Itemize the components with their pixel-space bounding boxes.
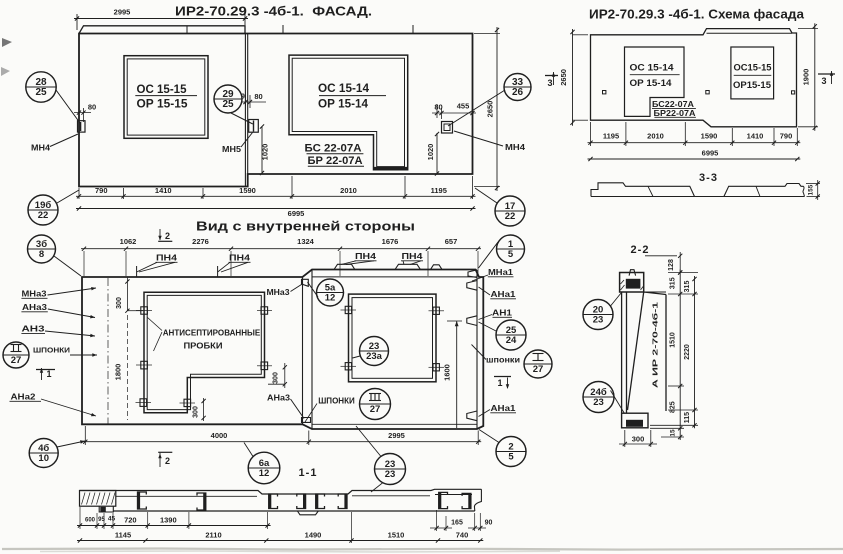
- callout circle 19b/22: [28, 195, 58, 225]
- callout circle 33/26: [504, 74, 531, 101]
- svg-text:ОР 15-14: ОР 15-14: [630, 78, 673, 89]
- svg-text:740: 740: [456, 531, 469, 540]
- svg-text:1: 1: [46, 369, 51, 379]
- svg-text:20: 20: [593, 304, 604, 315]
- svg-text:80: 80: [88, 103, 96, 112]
- section 3-3 bottom line: [591, 196, 805, 198]
- dim 300 bottom of 2-2: [624, 430, 626, 447]
- facade window OC15-15 opening: [124, 56, 208, 139]
- leader PN4 no1: [137, 262, 157, 272]
- section 1-1 dim row1 left: [79, 507, 81, 529]
- inner bottom dims 4000 2995: [84, 426, 86, 445]
- svg-text:2995: 2995: [114, 8, 131, 17]
- svg-text:АНа2: АНа2: [11, 393, 37, 402]
- callout circle 25/24: [496, 320, 526, 350]
- svg-text:МНа3: МНа3: [22, 290, 48, 299]
- svg-text:315: 315: [684, 281, 691, 293]
- svg-text:1195: 1195: [431, 186, 447, 195]
- svg-text:6а: 6а: [259, 458, 270, 469]
- connector plate T1 on top edge: [334, 264, 355, 269]
- svg-text:1590: 1590: [239, 186, 256, 195]
- svg-text:300: 300: [632, 435, 645, 444]
- leader MH5-label to anchor: [241, 133, 253, 148]
- svg-text:1324: 1324: [297, 237, 315, 246]
- svg-text:23: 23: [369, 341, 380, 352]
- callout circle I/27: [524, 350, 552, 378]
- callout circle 2/5: [496, 437, 526, 467]
- channel ch7: [439, 492, 448, 508]
- section 1-1 right end: [474, 489, 481, 511]
- svg-text:1900: 1900: [802, 69, 811, 86]
- section 1-1 outline top: [80, 489, 482, 494]
- svg-text:27: 27: [11, 355, 22, 366]
- right edge connector C: [467, 411, 477, 421]
- svg-text:23: 23: [593, 397, 604, 408]
- plug right window left-low: [345, 363, 351, 370]
- svg-text:ПН4: ПН4: [355, 252, 377, 261]
- section mark 2 top: [158, 240, 172, 242]
- callout circle III/27: [360, 389, 391, 420]
- svg-text:ОС15-15: ОС15-15: [734, 63, 773, 74]
- svg-text:МН4: МН4: [31, 144, 51, 153]
- section mark 3 right: [818, 73, 835, 75]
- svg-text:ПН4: ПН4: [402, 252, 424, 261]
- svg-text:Вид с внутренней стороны: Вид с внутренней стороны: [196, 219, 415, 234]
- svg-text:25: 25: [222, 99, 234, 110]
- svg-text:24: 24: [506, 335, 517, 346]
- svg-text:2650: 2650: [486, 101, 495, 118]
- scheme window OC15-14 opening: [625, 47, 685, 116]
- svg-text:2: 2: [165, 231, 170, 241]
- dim 128 top: [645, 255, 677, 257]
- anchor MH4 left: [78, 121, 86, 132]
- svg-text:28: 28: [35, 77, 47, 88]
- leader shponki left: [70, 354, 97, 356]
- callout circle 3b/8: [28, 235, 56, 263]
- svg-text:5а: 5а: [325, 282, 336, 293]
- callout circle 23/23a: [360, 337, 389, 366]
- anchor AHa3 at bottom step: [302, 418, 311, 423]
- svg-text:455: 455: [457, 102, 470, 111]
- dim 1600 vertical: [447, 320, 462, 322]
- svg-text:2110: 2110: [205, 531, 221, 540]
- section mark 3 left: [545, 75, 558, 77]
- section 1-1 shponka bump: [297, 511, 318, 515]
- connector plate T2 on top edge: [395, 264, 420, 269]
- channel ch2: [197, 493, 206, 510]
- svg-text:ПН4: ПН4: [229, 254, 251, 263]
- dim line 1800 dashed: [126, 315, 128, 420]
- section 1-1 bottom: [113, 510, 475, 512]
- svg-text:1800: 1800: [114, 364, 123, 381]
- svg-text:33: 33: [512, 77, 524, 88]
- section 2-2 bottom block: [622, 413, 648, 428]
- right edge connector top corner: [468, 270, 477, 278]
- section 1-1 inner line left: [116, 495, 257, 497]
- inner joint vertical left: [302, 277, 304, 424]
- svg-text:29: 29: [222, 89, 234, 100]
- section 1-1 dim row1 right 165 90: [436, 510, 438, 531]
- svg-text:БР22-07А: БР22-07А: [654, 108, 696, 118]
- channel ch1: [138, 492, 147, 509]
- svg-text:1510: 1510: [670, 332, 677, 348]
- svg-text:1510: 1510: [388, 531, 405, 540]
- svg-text:825: 825: [670, 401, 677, 413]
- svg-text:600: 600: [85, 518, 96, 524]
- left margin artifact 1: [2, 38, 12, 47]
- svg-text:ОР 15-15: ОР 15-15: [137, 97, 188, 111]
- svg-text:МНа1: МНа1: [488, 268, 514, 277]
- channel ch8: [462, 493, 471, 508]
- plug right window right-low: [433, 364, 439, 371]
- leader PN4 no2: [218, 262, 230, 272]
- svg-text:ПРОБКИ: ПРОБКИ: [184, 342, 223, 351]
- section 3-3 joint slashes: [648, 186, 653, 196]
- inner panel outline: [82, 270, 483, 430]
- section 1-1 inner line far right: [435, 494, 472, 496]
- facade right dim 2650: [474, 33, 500, 35]
- callout circle 28/25: [26, 72, 56, 102]
- leader MH4r-label to anchor: [454, 131, 503, 146]
- channel ch6: [338, 494, 347, 509]
- scheme bottom dims 1195 2010 1590 1410 790: [590, 122, 592, 146]
- leader 4b/10: [57, 441, 85, 447]
- svg-text:128: 128: [668, 259, 675, 271]
- leader plugs to left edge lower: [154, 332, 163, 351]
- dim 1020 vertical at MH5: [261, 126, 263, 174]
- svg-text:25: 25: [506, 325, 517, 336]
- svg-text:27: 27: [533, 364, 544, 375]
- plug mid-left of opening: [141, 361, 148, 369]
- scheme left dim 2650: [573, 34, 589, 36]
- scheme total 6995: [588, 158, 801, 160]
- scheme panel outline: [591, 29, 797, 127]
- svg-text:155: 155: [808, 184, 815, 195]
- plug top-right of opening: [261, 307, 268, 314]
- svg-text:300: 300: [116, 297, 123, 309]
- svg-text:115: 115: [684, 412, 691, 423]
- connector plate T3 on top edge: [431, 265, 443, 270]
- svg-text:17: 17: [505, 201, 516, 212]
- svg-text:80: 80: [434, 103, 442, 112]
- leader PN4 no4: [403, 261, 404, 265]
- svg-text:315: 315: [670, 277, 677, 289]
- dim 300 top-left of inner view: [126, 278, 128, 311]
- svg-text:90: 90: [485, 520, 493, 527]
- svg-text:АНа3: АНа3: [22, 303, 48, 312]
- section 1-1 left block: [80, 491, 116, 507]
- section mark 1 left: [40, 368, 43, 373]
- facade dim 2995: [76, 14, 78, 30]
- callout circle 23/23 bottom: [375, 454, 406, 485]
- facade panel top lip: [79, 26, 245, 34]
- callout circle 4b/10: [29, 439, 58, 468]
- svg-text:1676: 1676: [382, 237, 399, 246]
- dim 300 bottom of opening: [203, 398, 205, 421]
- plug top-left of opening: [141, 307, 148, 314]
- plug low-left of opening: [140, 399, 147, 407]
- callout circle 17/22: [495, 196, 525, 226]
- plug mid-right of opening: [261, 362, 268, 370]
- svg-text:3-3: 3-3: [699, 172, 718, 184]
- svg-text:720: 720: [124, 516, 137, 525]
- inner panel bottom inner line right part: [312, 423, 477, 425]
- dim 1020 vertical right: [436, 133, 438, 174]
- leader PN4 no3: [341, 261, 356, 265]
- anchor MH5: [249, 120, 259, 133]
- scheme right dim 1900: [798, 28, 818, 30]
- svg-text:22: 22: [38, 210, 49, 221]
- inner right window opening: [349, 294, 437, 382]
- svg-text:95: 95: [98, 517, 105, 523]
- svg-text:26: 26: [512, 87, 524, 98]
- svg-text:шпонки: шпонки: [486, 356, 520, 365]
- leader 1/5: [479, 242, 499, 268]
- svg-text:1020: 1020: [261, 144, 270, 161]
- svg-text:БС 22-07А: БС 22-07А: [305, 143, 362, 155]
- channel ch3: [269, 494, 278, 509]
- scheme anchor dot left: [603, 91, 606, 94]
- plug on step edge of opening: [184, 399, 191, 406]
- facade bottom dims 790 1410 1590 2010 1195: [78, 188, 80, 199]
- dim 9 and 80 at MH5: [245, 95, 247, 106]
- svg-text:А ИР 2-70-4б-1: А ИР 2-70-4б-1: [651, 302, 660, 388]
- svg-text:1145: 1145: [115, 531, 131, 540]
- leader AHa3: [291, 399, 305, 419]
- leader 2/5: [479, 430, 499, 443]
- section 2-2 top block hatch: [621, 285, 625, 290]
- leader circle33 to anchor: [448, 90, 505, 126]
- svg-text:23: 23: [385, 459, 396, 470]
- anchor MH4 right: [442, 122, 453, 134]
- anchor MHa3 at top step: [302, 279, 309, 286]
- svg-text:23: 23: [385, 469, 396, 480]
- right edge connector A: [467, 281, 477, 291]
- svg-text:ОР15-15: ОР15-15: [733, 80, 772, 91]
- svg-text:4б: 4б: [38, 443, 49, 454]
- svg-text:300: 300: [193, 406, 200, 418]
- svg-text:9: 9: [241, 94, 245, 101]
- svg-text:ОС 15-15: ОС 15-15: [137, 82, 187, 96]
- facade top edge tick 1: [186, 27, 188, 34]
- callout circle 20/23: [583, 300, 613, 330]
- leader 25/24: [479, 322, 497, 331]
- svg-text:5: 5: [508, 452, 514, 463]
- section mark 1 right: [494, 376, 511, 378]
- svg-text:ШПОНКИ: ШПОНКИ: [318, 397, 355, 406]
- inner panel right inner edge line: [476, 270, 478, 429]
- dim 300 right of opening: [284, 363, 286, 388]
- scheme anchor dot right edge: [792, 91, 795, 94]
- inner panel lip line right part: [312, 276, 477, 278]
- svg-text:МНа3: МНа3: [267, 288, 291, 297]
- svg-text:15: 15: [670, 429, 677, 437]
- svg-text:МН4: МН4: [505, 143, 526, 152]
- svg-text:6995: 6995: [702, 149, 719, 158]
- channel ch5: [316, 494, 325, 509]
- dim col2 315 2220 115: [694, 276, 696, 428]
- svg-text:ШПОНКИ: ШПОНКИ: [33, 346, 70, 355]
- svg-text:22: 22: [505, 211, 516, 222]
- svg-text:БР 22-07А: БР 22-07А: [308, 155, 363, 167]
- callout circle 29/25: [214, 85, 242, 113]
- svg-text:300: 300: [273, 372, 280, 384]
- svg-text:23а: 23а: [366, 351, 383, 362]
- svg-text:1: 1: [508, 239, 514, 250]
- section 2-2 top tip: [629, 270, 636, 276]
- dim 80 455 at right anchor: [436, 104, 438, 118]
- svg-text:2-2: 2-2: [631, 244, 650, 256]
- svg-text:1590: 1590: [701, 132, 718, 141]
- svg-text:ОР 15-14: ОР 15-14: [318, 97, 368, 111]
- leader 5a to step: [308, 282, 319, 297]
- dim 80 at left anchor: [78, 110, 80, 117]
- svg-text:2220: 2220: [684, 344, 691, 360]
- inner joint vertical right: [311, 270, 313, 429]
- leader shponki right: [472, 345, 487, 360]
- leader 6a/12: [244, 443, 253, 457]
- svg-text:657: 657: [445, 237, 458, 246]
- section 1-1 left lower hook: [99, 506, 113, 512]
- leader 23/23 down: [371, 483, 383, 493]
- svg-text:790: 790: [780, 132, 793, 141]
- svg-text:10: 10: [38, 453, 49, 464]
- svg-text:2010: 2010: [340, 186, 357, 195]
- svg-text:АНа1: АНа1: [491, 290, 517, 299]
- scheme anchor dot mid: [706, 91, 709, 94]
- leader plugs to left edge upper: [148, 318, 163, 331]
- inner top dims 1062 2276 1324 1676 657: [83, 251, 85, 276]
- axis dash-dot line left: [107, 278, 109, 424]
- svg-text:2: 2: [165, 456, 170, 466]
- leader circle29 to anchor: [231, 113, 253, 124]
- svg-text:6995: 6995: [288, 209, 305, 218]
- svg-text:3: 3: [547, 78, 552, 88]
- svg-text:ИР2-70.29.3 -4б-1. ФАСАД.: ИР2-70.29.3 -4б-1. ФАСАД.: [175, 4, 372, 19]
- svg-text:ИР2-70.29.3 -4б-1. Схема фасад: ИР2-70.29.3 -4б-1. Схема фасада: [589, 8, 805, 22]
- svg-text:80: 80: [254, 92, 262, 101]
- facade window OC15-14 opening (L-shape): [289, 55, 408, 170]
- bottom scan smudge: [2, 549, 843, 550]
- svg-text:24б: 24б: [590, 387, 607, 398]
- svg-text:8: 8: [39, 249, 44, 260]
- callout circle 24b/23: [583, 382, 614, 413]
- facade joint vertical lines: [244, 34, 246, 187]
- svg-text:МН5: МН5: [222, 145, 242, 154]
- leader 23/23 up: [356, 426, 381, 457]
- left margin artifact 2: [1, 67, 10, 76]
- scheme window OC15-15 opening: [731, 47, 774, 99]
- svg-text:1-1: 1-1: [299, 467, 318, 479]
- svg-text:АНТИСЕПТИРОВАННЫЕ: АНТИСЕПТИРОВАННЫЕ: [163, 329, 261, 338]
- svg-text:1195: 1195: [603, 132, 619, 141]
- svg-text:165: 165: [451, 520, 463, 527]
- svg-text:25: 25: [35, 87, 47, 98]
- svg-text:1600: 1600: [443, 364, 452, 381]
- plug right window right-top: [433, 307, 439, 314]
- svg-text:4000: 4000: [211, 431, 228, 440]
- svg-text:1062: 1062: [120, 237, 137, 246]
- svg-text:790: 790: [95, 186, 108, 195]
- section 1-1 inner line right: [352, 495, 430, 497]
- section mark 2 bottom: [158, 451, 172, 453]
- callout circle 6a/12: [248, 452, 280, 484]
- scheme top lip inner line: [707, 32, 793, 34]
- svg-text:2276: 2276: [192, 237, 209, 246]
- svg-text:1490: 1490: [305, 531, 322, 540]
- callout circle II/27: [3, 342, 29, 368]
- facade top edge tick 2: [282, 25, 284, 34]
- callout circle 5a/12: [317, 279, 344, 306]
- leader 3b to inner corner: [54, 256, 81, 276]
- svg-text:ОС 15-14: ОС 15-14: [630, 63, 675, 74]
- svg-text:3: 3: [821, 76, 826, 86]
- callout circle 1/5: [497, 235, 525, 263]
- svg-text:АНа1: АНа1: [491, 404, 517, 413]
- svg-text:1410: 1410: [155, 186, 172, 195]
- svg-text:2995: 2995: [388, 431, 405, 440]
- leader MHa3: [291, 284, 304, 292]
- dim col1 315 1510 825 15: [668, 272, 698, 274]
- section 2-2 body: [622, 292, 666, 413]
- leader 23a to frame: [353, 356, 361, 358]
- svg-text:19б: 19б: [35, 200, 52, 211]
- facade panel outline: [79, 34, 473, 187]
- svg-text:АНа3: АНа3: [267, 394, 291, 403]
- inner left opening outline: [144, 292, 265, 413]
- svg-text:АН1: АН1: [492, 308, 512, 318]
- svg-text:5: 5: [508, 249, 514, 260]
- svg-text:23: 23: [593, 315, 604, 326]
- svg-text:2650: 2650: [559, 69, 568, 86]
- svg-text:2: 2: [508, 441, 513, 452]
- facade total dim 6995: [76, 208, 476, 210]
- leader 20/23: [611, 293, 622, 307]
- facade top edge tick 3: [412, 25, 414, 34]
- svg-text:12: 12: [259, 468, 270, 479]
- svg-text:ПН4: ПН4: [156, 254, 178, 263]
- svg-text:3б: 3б: [36, 239, 47, 250]
- leader 19b to facade corner: [57, 190, 79, 203]
- svg-text:27: 27: [370, 404, 381, 415]
- plug right window left-top: [345, 306, 351, 313]
- section 1-1 dim row2: [351, 512, 353, 543]
- svg-text:45: 45: [108, 516, 116, 523]
- svg-text:2010: 2010: [647, 132, 664, 141]
- svg-text:1: 1: [497, 378, 502, 388]
- svg-text:ОС 15-14: ОС 15-14: [318, 81, 369, 95]
- svg-text:1390: 1390: [160, 516, 177, 525]
- section 2-2 top block: [620, 273, 644, 293]
- channel ch4: [297, 494, 306, 509]
- leader 17/22: [475, 188, 497, 203]
- leader 24b/23: [611, 391, 625, 414]
- svg-text:1410: 1410: [747, 132, 764, 141]
- svg-text:1020: 1020: [426, 144, 435, 161]
- section 3-3 profile: [591, 183, 695, 197]
- leader circle28 to anchor: [56, 90, 80, 123]
- section 3-3 right dim 155: [806, 183, 820, 185]
- leader shponki mid: [305, 404, 317, 423]
- svg-text:12: 12: [325, 293, 336, 304]
- svg-text:АН3: АН3: [22, 324, 45, 334]
- right edge connector B: [467, 316, 477, 326]
- leader MH4-label to anchor: [50, 134, 78, 147]
